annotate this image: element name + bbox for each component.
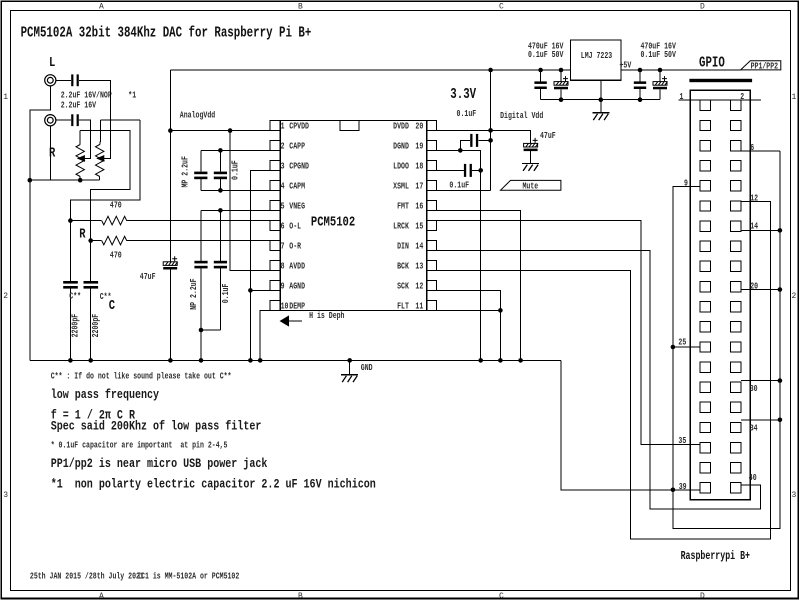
junction ground rail bbox=[68, 358, 73, 363]
junction DVDD bbox=[488, 128, 493, 133]
capacitor C5 47uF polarized bbox=[163, 262, 177, 266]
wire pot ground line bbox=[30, 179, 100, 181]
svg-text:DVDD: DVDD bbox=[393, 121, 409, 131]
capacitor C7 0.1uF bbox=[219, 150, 221, 171]
capacitor C8 NP 2.2uF bbox=[200, 210, 202, 260]
U1 pin 16 box bbox=[427, 201, 437, 211]
wire GND stub bbox=[349, 360, 351, 374]
svg-text:DEMP: DEMP bbox=[289, 301, 305, 311]
wire SCK to ground bbox=[437, 290, 501, 360]
wire LRCK to pin35 bbox=[437, 221, 701, 445]
svg-text:0.1uF: 0.1uF bbox=[221, 284, 231, 304]
CN1 pin row 27 square bbox=[700, 362, 710, 372]
svg-text:CPVDD: CPVDD bbox=[289, 121, 309, 131]
node AnalogVdd bbox=[168, 128, 173, 133]
svg-text:C**: C** bbox=[69, 292, 81, 302]
ground symbol C16 bbox=[522, 163, 539, 171]
svg-text:20: 20 bbox=[750, 282, 758, 292]
wire pin25 gnd stub bbox=[673, 346, 700, 348]
svg-text:CPGND: CPGND bbox=[289, 161, 309, 171]
wire C3 to ground rail bbox=[69, 288, 71, 360]
U1 pin 20 box bbox=[427, 121, 437, 131]
svg-text:19: 19 bbox=[415, 141, 423, 151]
junction gnd bus 34 bbox=[778, 418, 783, 423]
wire XSML pull bbox=[437, 189, 491, 191]
wire CPGND route bbox=[250, 170, 270, 360]
svg-text:GND: GND bbox=[361, 363, 373, 373]
svg-text:11: 11 bbox=[415, 301, 423, 311]
CN1 pin row 15 square bbox=[700, 241, 710, 251]
wire pin14 gnd stub bbox=[741, 229, 780, 231]
junction rail DVDD bbox=[488, 68, 493, 73]
capacitor C3 2200pF bbox=[63, 281, 78, 284]
wire DVDD drop bbox=[490, 70, 492, 190]
svg-text:7: 7 bbox=[281, 241, 285, 251]
svg-text:2: 2 bbox=[3, 292, 8, 301]
resistor R1 470 bbox=[102, 216, 127, 225]
junction gnd bus 20 bbox=[778, 287, 783, 292]
junction ground rail bbox=[168, 358, 173, 363]
svg-text:470: 470 bbox=[110, 250, 122, 260]
svg-text:0.1uF 50V: 0.1uF 50V bbox=[641, 50, 677, 60]
junction DGND C14 bbox=[458, 148, 463, 153]
junction ground rail bbox=[248, 358, 253, 363]
wire L jack to C1 bbox=[56, 79, 71, 81]
svg-text:LDOO: LDOO bbox=[393, 161, 409, 171]
junction gnd bus 25 bbox=[671, 345, 676, 350]
wire DVDD to C16 bbox=[491, 130, 531, 143]
svg-text:NP 2.2uF: NP 2.2uF bbox=[189, 278, 199, 309]
svg-text:9: 9 bbox=[281, 281, 285, 291]
wire ground rail to header bbox=[561, 360, 700, 489]
arrow H is Deph bbox=[281, 316, 289, 325]
svg-text:LRCK: LRCK bbox=[393, 221, 409, 231]
wire C9 bottom to C8 bbox=[201, 329, 220, 331]
wire C5 to ground rail bbox=[169, 270, 171, 361]
svg-text:* 0.1uF capacitor are importan: * 0.1uF capacitor are important at pin 2… bbox=[51, 440, 228, 450]
CN1 pin row 34 square bbox=[731, 422, 742, 432]
svg-text:3: 3 bbox=[3, 491, 8, 500]
junction rail C12 bbox=[638, 68, 643, 73]
svg-text:PP1/PP2: PP1/PP2 bbox=[751, 61, 779, 71]
U1 pin 18 box bbox=[427, 161, 437, 171]
potentiometer VR1 bbox=[76, 145, 84, 177]
svg-text:GPIO: GPIO bbox=[699, 56, 725, 72]
U1 pin 15 box bbox=[427, 221, 437, 231]
wire O-L to C3 bbox=[69, 221, 71, 281]
capacitor C14 0.1uF DVDD bbox=[470, 134, 472, 147]
svg-text:18: 18 bbox=[415, 161, 423, 171]
junction CAPP C7 bbox=[218, 148, 223, 153]
svg-text:17: 17 bbox=[415, 181, 423, 191]
junction reg gnd bbox=[599, 97, 604, 102]
svg-text:5: 5 bbox=[281, 201, 285, 211]
svg-text:IC1 is MM-5102A or PCM5102: IC1 is MM-5102A or PCM5102 bbox=[137, 572, 239, 582]
capacitor C2 2.2uF R bbox=[71, 114, 73, 126]
svg-text:C: C bbox=[499, 3, 504, 12]
wire 3.3V rail to AnalogVdd bbox=[169, 70, 171, 131]
U1 pin 9 box bbox=[270, 281, 280, 291]
junction ground rail bbox=[518, 358, 523, 363]
svg-text:MP 2.2uF: MP 2.2uF bbox=[180, 156, 190, 187]
svg-text:D: D bbox=[700, 3, 705, 12]
CN1 pin row 39 square bbox=[700, 483, 710, 493]
svg-text:B: B bbox=[298, 592, 303, 600]
junction ground rail bbox=[199, 358, 204, 363]
regulator U2 LMJ 7223 bbox=[571, 40, 622, 80]
junction ground header link bbox=[671, 488, 676, 493]
svg-text:6: 6 bbox=[281, 221, 285, 231]
junction rail C13 bbox=[658, 68, 663, 73]
svg-text:XSML: XSML bbox=[393, 181, 409, 191]
capacitor C11 470uF 16V polarized bbox=[560, 70, 562, 81]
CN1 pin row 10 square bbox=[731, 181, 742, 191]
junction ground rail bbox=[258, 358, 263, 363]
svg-text:2.2uF 16V: 2.2uF 16V bbox=[61, 101, 97, 111]
wire O-R junction to R2 bbox=[91, 240, 102, 242]
CN1 pin row 32 square bbox=[731, 402, 742, 412]
svg-text:Digital Vdd: Digital Vdd bbox=[500, 111, 543, 121]
capacitor C16 47uF polarized bbox=[524, 143, 538, 147]
svg-text:B: B bbox=[298, 3, 303, 12]
svg-text:C: C bbox=[499, 592, 504, 600]
junction FLT SCK bbox=[498, 308, 503, 313]
svg-text:34: 34 bbox=[750, 423, 758, 433]
wire R jack to C2 bbox=[56, 119, 71, 121]
svg-text:Spec said 200Khz of low pass f: Spec said 200Khz of low pass filter bbox=[51, 419, 262, 434]
wire VNEG line bbox=[201, 209, 270, 211]
U1 pin 7 box bbox=[270, 241, 280, 251]
junction gnd bus 30 bbox=[778, 378, 783, 383]
CN1 pin row 29 square bbox=[700, 382, 710, 392]
U1 pin 1 box bbox=[270, 121, 280, 131]
CN1 pin row 19 square bbox=[700, 281, 710, 291]
capacitor C10 0.1uF 50V bbox=[540, 70, 542, 81]
svg-text:LMJ 7223: LMJ 7223 bbox=[581, 51, 612, 61]
junction C14 right bbox=[488, 138, 493, 143]
CN1 pin row 6 square bbox=[731, 141, 742, 151]
wire pin6 gnd stub bbox=[741, 150, 780, 152]
wire AnalogVdd to C5 bbox=[169, 131, 171, 262]
svg-text:PP1/pp2 is near micro USB powe: PP1/pp2 is near micro USB power jack bbox=[51, 456, 268, 471]
wire pin30 gnd stub bbox=[741, 380, 780, 382]
svg-text:FLT: FLT bbox=[397, 301, 409, 311]
CN1 pin row 13 square bbox=[700, 221, 710, 231]
junction rail C11 bbox=[559, 68, 564, 73]
wire right gnd bus bbox=[673, 151, 780, 529]
wire CAPM line bbox=[201, 189, 270, 191]
GPIO underline bar bbox=[689, 79, 752, 82]
junction VNEG C9 bbox=[218, 208, 223, 213]
svg-text:2200pF: 2200pF bbox=[71, 314, 81, 338]
svg-text:0.1uF: 0.1uF bbox=[449, 181, 469, 191]
svg-text:*1 non polarty electric capac: *1 non polarty electric capacitor 2.2 uF… bbox=[51, 476, 376, 491]
svg-text:3: 3 bbox=[281, 161, 285, 171]
svg-text:2: 2 bbox=[281, 141, 285, 151]
capacitor C9 0.1uF bbox=[219, 210, 221, 260]
CN1 pin row 3 square bbox=[700, 120, 710, 130]
wire regulator gnd pin bbox=[600, 80, 602, 112]
wire 3.3V rail left bbox=[170, 69, 570, 71]
svg-text:9: 9 bbox=[684, 179, 688, 189]
VR1 wiper arrow bbox=[78, 156, 84, 161]
wire DIN to pin40 bbox=[437, 250, 761, 508]
CN1 pin row 37 square bbox=[700, 463, 710, 473]
svg-text:CAPP: CAPP bbox=[289, 141, 305, 151]
svg-text:VNEG: VNEG bbox=[289, 201, 305, 211]
CN1 pin row 35 square bbox=[700, 442, 710, 452]
CN1 pin row 5 square bbox=[700, 141, 710, 151]
capacitor C12 0.1uF 50V bbox=[639, 70, 641, 81]
junction ground rail bbox=[347, 358, 352, 363]
svg-text:2: 2 bbox=[740, 92, 744, 102]
wire VR1 top route bbox=[80, 130, 130, 240]
wire O-L junction to R1 bbox=[70, 220, 101, 222]
U1 pin 3 box bbox=[270, 161, 280, 171]
node junction O-R bbox=[88, 238, 93, 243]
U1 pin 10 box bbox=[270, 301, 280, 311]
wire R2 to pin7 bbox=[127, 240, 270, 242]
CN1 pin row 20 square bbox=[731, 281, 742, 291]
CN1 pin row 21 square bbox=[700, 302, 710, 312]
CN1 pin row 16 square bbox=[731, 241, 742, 251]
ground symbol regulator bbox=[592, 113, 609, 121]
U1 pin 4 box bbox=[270, 181, 280, 191]
junction ground rail bbox=[478, 358, 483, 363]
wire +5V rail right bbox=[621, 69, 741, 71]
U1 pin 17 box bbox=[427, 181, 437, 191]
junction C11 gnd bbox=[559, 97, 564, 102]
svg-text:8: 8 bbox=[281, 261, 285, 271]
flag PP1/PP2 bbox=[741, 61, 781, 70]
CN1 pin row 23 square bbox=[700, 322, 710, 332]
junction VR1 bottom bbox=[78, 178, 83, 183]
svg-text:2: 2 bbox=[792, 292, 797, 301]
op-amp U1 PCM5102 body bbox=[280, 121, 426, 311]
wire CAPP line bbox=[201, 149, 270, 151]
svg-text:1: 1 bbox=[281, 121, 285, 131]
U1 notch bbox=[340, 121, 359, 131]
U1 pin 5 box bbox=[270, 201, 280, 211]
svg-text:O-R: O-R bbox=[289, 241, 301, 251]
connector J1 RCA jack L bbox=[45, 75, 56, 86]
svg-text:30: 30 bbox=[750, 384, 758, 394]
wire VR2-top route down bbox=[70, 120, 140, 220]
svg-text:1: 1 bbox=[3, 93, 8, 102]
svg-text:0.1uF: 0.1uF bbox=[231, 160, 241, 180]
svg-text:1: 1 bbox=[680, 92, 684, 102]
svg-text:25: 25 bbox=[678, 338, 686, 348]
wire regulator ground line bbox=[541, 99, 660, 101]
wire FLT bbox=[437, 309, 501, 311]
CN1 pin row 40 square bbox=[731, 483, 742, 493]
svg-text:2200pF: 2200pF bbox=[91, 314, 101, 338]
svg-text:25th JAN 2015 /28th July 2021: 25th JAN 2015 /28th July 2021 bbox=[30, 572, 144, 582]
junction C12 gnd bbox=[638, 97, 643, 102]
CN1 pin row 30 square bbox=[731, 382, 742, 392]
wire DEMP to ground bbox=[260, 310, 270, 360]
svg-text:L: L bbox=[49, 55, 55, 71]
svg-text:3.3V: 3.3V bbox=[450, 87, 476, 103]
wire O-R to C4 bbox=[90, 241, 92, 281]
CN1 pin row 28 square bbox=[731, 362, 742, 372]
CN1 pin row 17 square bbox=[700, 261, 710, 271]
svg-text:AGND: AGND bbox=[289, 281, 305, 291]
svg-text:Raspberrypi B+: Raspberrypi B+ bbox=[681, 550, 750, 563]
svg-text:35: 35 bbox=[678, 436, 686, 446]
capacitor C15 0.1uF LDOO bbox=[437, 169, 464, 171]
svg-text:16: 16 bbox=[415, 201, 423, 211]
svg-text:15: 15 bbox=[415, 221, 423, 231]
wire pin20 gnd stub bbox=[741, 289, 780, 291]
CN1 pin row 8 square bbox=[731, 161, 742, 171]
wire C4 to ground rail bbox=[90, 288, 92, 360]
CN1 pin row 4 square bbox=[731, 120, 742, 130]
svg-text:0.1uF: 0.1uF bbox=[457, 109, 477, 119]
U1 pin 12 box bbox=[427, 281, 437, 291]
potentiometer VR2 bbox=[96, 145, 104, 177]
junction gnd bus 14 bbox=[778, 228, 783, 233]
CN1 pin row 7 square bbox=[700, 161, 710, 171]
wire AnalogVdd to pin1 bbox=[170, 130, 270, 132]
svg-text:O-L: O-L bbox=[289, 221, 301, 231]
CN1 pin row 33 square bbox=[700, 422, 710, 432]
svg-text:CAPM: CAPM bbox=[289, 181, 305, 191]
svg-text:PCM5102A 32bit 384Khz DAC for: PCM5102A 32bit 384Khz DAC for Raspberry … bbox=[21, 26, 312, 42]
U1 pin 19 box bbox=[427, 141, 437, 151]
capacitor C13 470uF 16V polarized bbox=[659, 70, 661, 81]
wire jack grounds bbox=[30, 86, 51, 361]
svg-text:AVDD: AVDD bbox=[289, 261, 305, 271]
CN1 pin row 26 square bbox=[731, 342, 742, 352]
svg-text:+5V: +5V bbox=[620, 60, 632, 70]
svg-text:14: 14 bbox=[750, 222, 758, 232]
svg-text:A: A bbox=[99, 3, 104, 12]
svg-text:47uF: 47uF bbox=[540, 131, 556, 141]
svg-text:20: 20 bbox=[415, 121, 423, 131]
svg-text:AnalogVdd: AnalogVdd bbox=[180, 111, 215, 121]
wire pin34 gnd stub bbox=[741, 419, 780, 421]
svg-text:13: 13 bbox=[415, 261, 423, 271]
wire R1 to pin6 bbox=[127, 220, 270, 222]
connector J2 RCA jack R bbox=[45, 115, 56, 126]
svg-text:BCK: BCK bbox=[397, 261, 409, 271]
wire BCK to pin12 bbox=[437, 201, 771, 539]
U1 pin 13 box bbox=[427, 261, 437, 271]
U1 pin 8 box bbox=[270, 261, 280, 271]
wire C2 to VR1 wiper bbox=[79, 120, 91, 158]
CN1 pin row 2 square bbox=[731, 100, 742, 110]
svg-text:3: 3 bbox=[792, 491, 797, 500]
junction AnalogVdd to AVDD branch bbox=[228, 128, 233, 133]
svg-text:40: 40 bbox=[749, 473, 757, 483]
wire DVDD pin20 bbox=[437, 129, 491, 131]
svg-text:R: R bbox=[79, 226, 86, 242]
svg-text:12: 12 bbox=[750, 193, 758, 203]
svg-text:PCM5102: PCM5102 bbox=[311, 215, 355, 231]
wire FMT to ground bbox=[437, 210, 521, 360]
svg-text:DIN: DIN bbox=[397, 241, 409, 251]
junction ground rail bbox=[88, 358, 93, 363]
connector CN1 GPIO header body bbox=[690, 90, 750, 500]
ground symbol main bbox=[341, 375, 358, 383]
CN1 pin row 18 square bbox=[731, 261, 742, 271]
wire C16 to ground bbox=[530, 151, 532, 163]
junction ground trunk bbox=[28, 178, 33, 183]
svg-text:low pass frequency: low pass frequency bbox=[51, 387, 160, 402]
junction ground rail bbox=[498, 358, 503, 363]
CN1 pin row 14 square bbox=[731, 221, 742, 231]
CN1 pin row 1 square bbox=[700, 100, 710, 110]
svg-text:A: A bbox=[99, 592, 104, 600]
svg-text:2.2uF 16V/NOP: 2.2uF 16V/NOP bbox=[61, 90, 112, 100]
svg-text:470: 470 bbox=[110, 200, 122, 210]
CN1 pin row 25 square bbox=[700, 342, 710, 352]
svg-text:39: 39 bbox=[679, 482, 687, 492]
flag Mute bbox=[500, 180, 561, 190]
junction CAPM C7 bbox=[218, 188, 223, 193]
svg-text:C: C bbox=[109, 298, 115, 314]
svg-text:10: 10 bbox=[281, 301, 289, 311]
svg-text:14: 14 bbox=[415, 241, 423, 251]
junction rail C10 bbox=[538, 68, 543, 73]
node junction O-L bbox=[68, 218, 73, 223]
svg-text:4: 4 bbox=[281, 181, 285, 191]
svg-text:FMT: FMT bbox=[397, 201, 409, 211]
junction C8 C9 bottoms bbox=[199, 328, 204, 333]
svg-text:6: 6 bbox=[750, 143, 754, 153]
CN1 pin row 24 square bbox=[731, 322, 742, 332]
wire DGND pin19 bbox=[437, 150, 481, 360]
CN1 pin row 11 square bbox=[700, 201, 710, 211]
U1 pin 6 box bbox=[270, 221, 280, 231]
CN1 pin row 36 square bbox=[731, 442, 742, 452]
U1 pin 2 box bbox=[270, 141, 280, 151]
junction LDOO C15 bbox=[478, 168, 483, 173]
CN1 pin row 31 square bbox=[700, 402, 710, 412]
CN1 pin row 9 square bbox=[700, 181, 710, 191]
svg-text:1: 1 bbox=[792, 93, 797, 102]
resistor R2 470 bbox=[102, 236, 127, 245]
svg-text:C** : If do not like sound ple: C** : If do not like sound please take o… bbox=[51, 371, 232, 381]
wire C1 to L node bbox=[79, 80, 111, 158]
capacitor C1 2.2uF L bbox=[71, 74, 73, 86]
wire AGND pin bbox=[250, 289, 270, 291]
CN1 pin row 12 square bbox=[731, 201, 742, 211]
svg-text:DGND: DGND bbox=[393, 141, 409, 151]
CN1 pin row 22 square bbox=[731, 302, 742, 312]
wire L node to VR2 top bbox=[100, 119, 140, 121]
capacitor C6 MP 2.2uF bbox=[200, 150, 202, 171]
svg-text:47uF: 47uF bbox=[140, 272, 156, 282]
svg-text:Mute: Mute bbox=[523, 182, 539, 192]
wire main ground rail bbox=[30, 359, 561, 361]
svg-text:H is Deph: H is Deph bbox=[309, 311, 344, 321]
svg-text:*1: *1 bbox=[128, 90, 136, 100]
U1 pin 14 box bbox=[427, 241, 437, 251]
wire AVDD branch bbox=[230, 131, 270, 271]
svg-text:D: D bbox=[700, 592, 705, 600]
CN1 pin row 38 square bbox=[731, 463, 742, 473]
capacitor C4 2200pF bbox=[84, 281, 99, 284]
junction AGND bbox=[248, 288, 253, 293]
svg-text:12: 12 bbox=[415, 281, 423, 291]
wire header row1 stub bbox=[679, 99, 761, 101]
svg-text:SCK: SCK bbox=[397, 281, 409, 291]
U1 pin 11 box bbox=[427, 301, 437, 311]
svg-text:0.1uF 50V: 0.1uF 50V bbox=[528, 50, 564, 60]
VR2 wiper arrow bbox=[97, 156, 103, 161]
